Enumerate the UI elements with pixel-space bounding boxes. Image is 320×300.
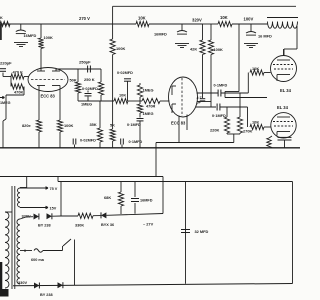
cathode leads V2 [179, 115, 187, 143]
resistor R17 42K [190, 24, 205, 93]
wire riser x112 [112, 6, 114, 24]
transformer T1 primary [5, 212, 12, 288]
ground under C2 [175, 44, 189, 48]
svg-text:330K: 330K [75, 224, 84, 228]
resistor R18 100K [208, 24, 223, 107]
capacitor C4 220pF [0, 61, 12, 77]
svg-text:75 V: 75 V [50, 187, 58, 191]
svg-text:BY 238: BY 238 [40, 293, 53, 297]
transformer T1 HT winding [17, 219, 20, 284]
anode bar V2b [172, 104, 176, 113]
svg-text:0·1MFD: 0·1MFD [212, 114, 226, 118]
resistor R2 100K [38, 24, 53, 70]
wire anode V1b to network [56, 68, 101, 70]
resistor R24 330K [61, 213, 93, 227]
ground under C3 [244, 44, 258, 48]
wire anode V2b out [196, 106, 217, 108]
capacitor C12 0.1MFD [214, 84, 249, 97]
resistor R15 5K [110, 55, 115, 148]
capacitor C6 0.02MFD [82, 87, 98, 101]
svg-text:470R: 470R [146, 104, 155, 109]
resistor R4 10K [218, 15, 268, 27]
wire bias line [107, 214, 164, 216]
diode D3 BY238 [34, 283, 39, 289]
resistor R22 270K [237, 93, 252, 134]
svg-text:EL 34: EL 34 [280, 88, 292, 93]
svg-text:1MEG: 1MEG [81, 102, 92, 107]
wire psu line2 [58, 177, 293, 182]
svg-text:K: K [0, 16, 3, 20]
resistor R3 10K [136, 16, 203, 27]
transformer T1 core [12, 186, 15, 289]
svg-text:16MFD: 16MFD [140, 199, 153, 203]
label K [0, 16, 3, 20]
svg-text:BY 238: BY 238 [38, 224, 51, 228]
wire psu box right [162, 177, 164, 214]
capacitor C7 0.02MFD col [117, 71, 133, 101]
svg-text:32 MFD: 32 MFD [195, 229, 209, 234]
svg-text:4·7: 4·7 [197, 96, 202, 100]
svg-text:1MEG: 1MEG [0, 101, 11, 105]
svg-text:100V: 100V [244, 17, 254, 22]
wire top bus [113, 5, 296, 7]
divider dashed V2 [181, 78, 183, 116]
wire diode row [53, 215, 62, 217]
resistor R12 1MEG upper [137, 83, 153, 101]
switch S1 [63, 239, 75, 285]
svg-text:35K: 35K [90, 122, 97, 127]
svg-text:330V: 330V [18, 280, 27, 285]
wire anode V2a out [197, 92, 219, 94]
svg-text:10K: 10K [220, 15, 228, 20]
diode D1 BY238 [34, 214, 39, 220]
resistor R-left on rail [0, 21, 10, 26]
capacitor C2 16MFD [154, 24, 187, 37]
pentode V4 EL34 envelope [271, 105, 296, 138]
anode bar V1a [37, 70, 45, 71]
resistor R25 68K [104, 182, 124, 215]
svg-text:16MFD: 16MFD [24, 33, 37, 38]
wire y101 b [128, 100, 142, 102]
svg-text:10K: 10K [119, 93, 126, 98]
svg-text:BYX 36: BYX 36 [101, 223, 114, 227]
triode V2 ECC83 envelope [169, 77, 198, 126]
svg-text:ECC 83: ECC 83 [171, 121, 186, 126]
resistor R14 35K [90, 101, 103, 148]
wire to grid EL34 top [247, 73, 249, 94]
resistor R23 cathode 470R [267, 136, 272, 148]
svg-text:270K: 270K [243, 129, 252, 134]
svg-text:220K: 220K [210, 128, 219, 133]
V4 internals [273, 117, 294, 136]
fuse 600ma [31, 249, 63, 262]
svg-text:10K: 10K [252, 120, 259, 125]
svg-text:42K: 42K [190, 47, 197, 52]
cathode V1b [52, 86, 60, 121]
node 330V bottom [18, 280, 27, 285]
resistor R9 50K [70, 69, 81, 101]
cathode V1a [37, 86, 45, 121]
resistor R10 250K [84, 69, 104, 101]
svg-text:0·1MFD: 0·1MFD [129, 140, 143, 144]
border left top bar [0, 24, 2, 40]
wire B+ rail 270V [0, 23, 136, 25]
svg-text:100K: 100K [44, 35, 53, 40]
wire ground bus [0, 147, 300, 149]
svg-text:0·02MFD: 0·02MFD [82, 87, 98, 91]
wire grid line y101 [78, 100, 114, 102]
resistor R20 10K grid stopper [250, 120, 271, 130]
diode D4 BY238 [40, 282, 63, 297]
svg-text:68K: 68K [104, 195, 111, 200]
svg-text:1MEG: 1MEG [143, 88, 154, 93]
wire to byx [93, 215, 101, 217]
capacitor C15 16MFD [131, 182, 153, 214]
capacitor C3 16MFD [246, 24, 272, 39]
resistor R5 470K [11, 70, 29, 80]
ground under C1 [14, 43, 28, 47]
node 100V [244, 17, 254, 22]
svg-text:5K: 5K [110, 123, 115, 128]
resistor R11 10K [114, 93, 128, 104]
node 320V [192, 18, 202, 23]
resistor R26 100K [110, 24, 125, 55]
svg-text:EL 34: EL 34 [277, 105, 289, 110]
node -27V [143, 222, 154, 227]
wire bias feed [156, 143, 234, 177]
svg-text:220pF: 220pF [0, 61, 12, 66]
resistor R19 10K grid stopper [250, 66, 271, 75]
capacitor C9 0.1MFD bus [121, 139, 143, 148]
svg-text:0·1MFD: 0·1MFD [127, 123, 141, 127]
svg-text:250 K: 250 K [84, 77, 95, 82]
svg-text:100K: 100K [116, 46, 125, 51]
diode D2 BY238 [38, 213, 52, 227]
anode bar V1b [52, 69, 60, 71]
wire bias riser x61 [60, 182, 62, 217]
svg-text:ECC 83: ECC 83 [41, 94, 56, 99]
svg-text:320V: 320V [192, 18, 202, 23]
node 270V [79, 16, 90, 21]
svg-text:250pF: 250pF [79, 60, 91, 65]
svg-text:600 ma: 600 ma [31, 258, 45, 262]
svg-text:470K: 470K [14, 90, 23, 95]
triode V1 ECC83 envelope [28, 68, 68, 99]
capacitor C1 16MFD [16, 24, 37, 38]
grid dashed line V1 [31, 79, 65, 81]
svg-text:100K: 100K [64, 123, 73, 128]
capacitor C5 250pF [79, 60, 91, 73]
wire screen b [225, 92, 267, 98]
svg-text:0: 0 [24, 249, 26, 253]
svg-text:– 27V: – 27V [143, 222, 154, 227]
potentiometer 1MEG volume [0, 95, 11, 148]
resistor R13 1MEG lower [137, 101, 153, 116]
capacitor C10 0.02MFD bus [73, 139, 96, 148]
svg-text:10K: 10K [138, 16, 146, 21]
wire screen a [225, 24, 239, 92]
svg-text:50K: 50K [70, 78, 77, 83]
svg-text:16 MFD: 16 MFD [258, 34, 272, 39]
wire psu top line [0, 176, 163, 178]
border corner blob [0, 262, 9, 297]
node 330V top [22, 214, 31, 219]
transformer T2 output primary [267, 18, 298, 29]
wire OT right end to EL34 anode [284, 26, 297, 56]
svg-text:100K: 100K [214, 47, 223, 52]
svg-text:0·1MFD: 0·1MFD [214, 84, 228, 88]
svg-text:0·02MFD: 0·02MFD [117, 71, 133, 75]
resistor R21 220K [210, 107, 230, 133]
resistor R6 470K [6, 77, 24, 96]
wire bottom rail [13, 284, 293, 286]
capacitor C11 4.7pF [197, 93, 212, 105]
svg-text:15V: 15V [50, 207, 57, 211]
wire HT top to diodes [20, 217, 33, 219]
svg-text:270 V: 270 V [79, 16, 90, 21]
wire bias join [227, 133, 240, 143]
capacitor C8 0.1MFD [127, 113, 144, 148]
anode bar V2a [172, 86, 176, 95]
svg-text:16MFD: 16MFD [154, 32, 167, 37]
V3 internals [273, 49, 294, 81]
capacitor C14 cathode bypass [278, 137, 292, 148]
svg-text:0·02MFD: 0·02MFD [80, 139, 96, 143]
transformer T1 heater winding [18, 177, 27, 208]
resistor R8 100K cathode [57, 120, 73, 148]
wire to grid EL34 bottom [247, 107, 249, 127]
wire right border [292, 182, 294, 284]
label 1MEG a [81, 102, 92, 107]
capacitor C13 0.1MFD [212, 104, 248, 119]
heater tap 75V [20, 187, 58, 191]
resistor R16 470R [142, 98, 170, 108]
transformer T1 center tap [20, 249, 32, 253]
svg-text:820e: 820e [22, 123, 31, 128]
diode D5 BYX36 [101, 212, 114, 227]
wire rail segment [203, 23, 219, 25]
pentode V3 EL34 envelope [271, 56, 297, 94]
heater tap 15V [20, 206, 57, 210]
resistor R7 820R cathode [22, 120, 42, 148]
svg-text:1MEG: 1MEG [143, 111, 154, 116]
capacitor C16 32MFD [181, 182, 209, 284]
